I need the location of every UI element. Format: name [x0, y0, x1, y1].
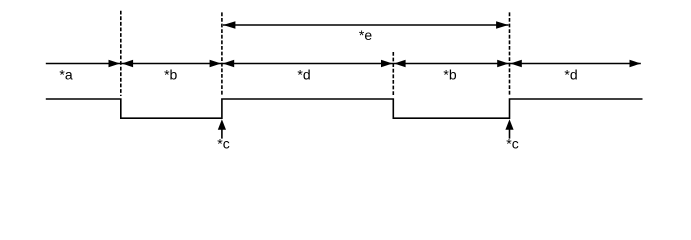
svg-text:*b: *b	[443, 67, 456, 83]
svg-text:*c: *c	[506, 136, 518, 152]
svg-text:*d: *d	[564, 67, 577, 83]
svg-text:*a: *a	[59, 67, 72, 83]
svg-text:*b: *b	[164, 67, 177, 83]
svg-text:*d: *d	[297, 67, 310, 83]
svg-text:*e: *e	[359, 27, 372, 43]
svg-text:*c: *c	[217, 136, 229, 152]
